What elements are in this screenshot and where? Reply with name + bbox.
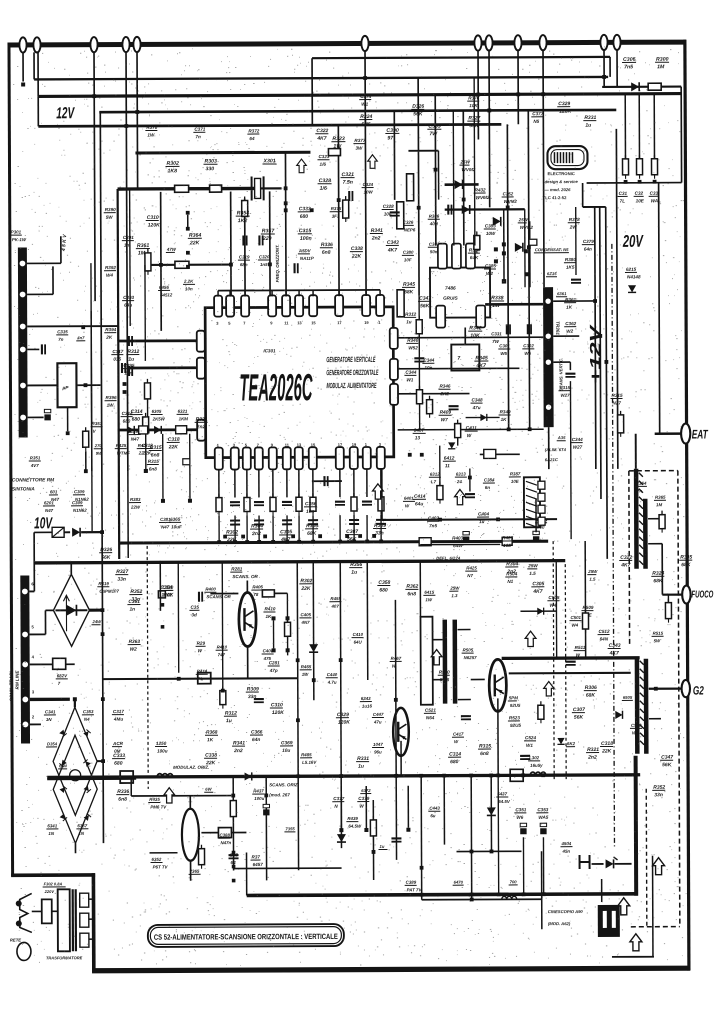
connector J301 body (left bar) — [18, 247, 28, 437]
svg-text:6n8: 6n8 — [322, 250, 331, 256]
svg-text:C302: C302 — [523, 343, 534, 348]
resistor R436 — [230, 797, 236, 821]
svg-text:33n: 33n — [117, 577, 126, 583]
svg-text:L7: L7 — [431, 479, 437, 484]
svg-text:C389: C389 — [406, 880, 417, 885]
junction — [528, 427, 532, 431]
wire riser x509 — [507, 124, 508, 429]
svg-text:R406: R406 — [252, 584, 263, 589]
svg-text:10W: 10W — [486, 231, 496, 236]
label R357 — [261, 228, 276, 242]
wire x505 verticals — [503, 209, 505, 281]
label R315 — [149, 445, 162, 459]
signal arrow — [618, 898, 630, 915]
pin of U301 (right) — [390, 384, 398, 405]
svg-text:R515: R515 — [653, 631, 664, 636]
junction — [296, 718, 300, 722]
svg-text:ELECTRONIC: ELECTRONIC — [548, 171, 575, 176]
wire y455 with white rect — [480, 453, 520, 455]
driver block U303 — [451, 344, 479, 370]
svg-text:R485: R485 — [301, 752, 312, 757]
svg-text:C377: C377 — [532, 111, 543, 116]
label C318 — [167, 437, 180, 451]
diode D315b — [462, 205, 470, 214]
transformer T301 secondary bar upper2 — [643, 499, 648, 569]
diode D313 — [309, 644, 318, 652]
svg-text:C344: C344 — [572, 437, 583, 442]
wire horizontal rail y111 — [99, 110, 616, 112]
svg-text:W6: W6 — [524, 351, 531, 356]
junction dots on y776 bus — [296, 774, 300, 778]
label 6215 — [625, 267, 641, 280]
junction y520 — [496, 517, 500, 521]
junction — [541, 92, 545, 96]
wire comp to rail — [380, 515, 382, 540]
wire x556 drop — [555, 561, 557, 658]
vertical resistor R429 — [397, 290, 404, 317]
svg-text:TRASFORMATORE: TRASFORMATORE — [46, 955, 83, 960]
svg-text:64U: 64U — [354, 640, 363, 645]
svg-text:R29: R29 — [197, 641, 206, 646]
capacitor C425b — [448, 205, 451, 215]
svg-text:100u: 100u — [254, 796, 264, 801]
svg-text:R365: R365 — [655, 495, 666, 500]
svg-text:1K: 1K — [501, 417, 508, 422]
svg-text:R40: R40 — [138, 443, 147, 448]
svg-text:4Mu: 4Mu — [113, 717, 123, 722]
label R361 — [136, 243, 150, 257]
svg-text:1047: 1047 — [373, 742, 383, 747]
svg-text:700: 700 — [510, 879, 518, 884]
wire riser x36 — [33, 52, 35, 79]
wire riser x530 — [528, 110, 529, 429]
junction — [604, 360, 608, 364]
wire riser x396 — [393, 111, 395, 200]
svg-text:6343: 6343 — [361, 696, 371, 701]
transformer T301 secondary bar upper — [634, 469, 639, 569]
label R323 — [331, 136, 345, 150]
svg-text:5W: 5W — [106, 215, 114, 220]
svg-text:47W: 47W — [166, 247, 177, 252]
svg-text:120K: 120K — [338, 720, 350, 726]
wire from U301 bottom pin — [380, 469, 382, 497]
svg-text:C281: C281 — [269, 660, 280, 665]
wire T301 pin3 — [553, 361, 570, 363]
label C314 — [130, 409, 143, 423]
wire y429 to U301 pin left3 — [118, 428, 198, 431]
pin 8 of U301 (bottom) — [309, 447, 317, 469]
svg-text:4K7: 4K7 — [387, 247, 397, 253]
label C318 — [600, 741, 613, 755]
white rect on y429 b — [176, 426, 187, 434]
diode D320 — [448, 442, 455, 448]
svg-text:6456: 6456 — [159, 285, 169, 290]
equal tick — [308, 520, 318, 524]
wire feeder x656 — [653, 94, 655, 159]
svg-text:W5: W5 — [500, 351, 507, 356]
resistor R310 — [220, 687, 226, 709]
svg-text:R349: R349 — [500, 409, 511, 414]
svg-text:TLC 41-2-52: TLC 41-2-52 — [543, 195, 567, 200]
ind loops y852 — [502, 896, 517, 899]
wire bridge output — [89, 609, 102, 612]
capacitor C308 — [282, 502, 292, 505]
svg-text:2n2: 2n2 — [371, 236, 381, 242]
svg-text:1W: 1W — [147, 132, 155, 137]
svg-text:SCANS. OR: SCANS. OR — [206, 594, 231, 599]
junction — [92, 94, 96, 98]
wire from U301 bottom pin — [258, 469, 260, 497]
junction G2 lead — [654, 687, 658, 691]
svg-text:C380: C380 — [403, 250, 414, 255]
wire y184 to EAT column — [587, 182, 682, 184]
svg-text:25W: 25W — [459, 160, 470, 165]
svg-text:CS 52-ALIMENTATORE-SCANSIONE O: CS 52-ALIMENTATORE-SCANSIONE ORIZZONTALE… — [154, 932, 338, 942]
resistor R303 — [216, 494, 222, 516]
resistor R323 — [437, 482, 443, 504]
wire horizontal rail y58 — [312, 57, 610, 58]
svg-text:C35: C35 — [190, 605, 199, 610]
svg-text:C31: C31 — [619, 191, 628, 196]
svg-text:4504: 4504 — [560, 841, 571, 846]
wire x222 vertical — [221, 563, 224, 691]
wire x443 — [443, 776, 445, 845]
resistor R301 — [648, 83, 661, 90]
transformer T301 primary bar — [543, 287, 554, 427]
signal arrow — [368, 155, 378, 169]
svg-text:C317: C317 — [113, 709, 124, 714]
white box left of rail — [218, 828, 231, 838]
svg-text:R432: R432 — [475, 187, 486, 192]
svg-text:C383: C383 — [485, 223, 496, 228]
label C329 — [557, 101, 571, 115]
T302 winding bar B — [452, 620, 457, 704]
svg-text:4K7: 4K7 — [532, 589, 542, 595]
svg-text:10u: 10u — [282, 748, 290, 754]
label C338 — [350, 246, 363, 260]
wire x273 seg — [272, 620, 274, 648]
svg-text:1K2: 1K2 — [238, 218, 248, 224]
svg-text:(MOD. A62): (MOD. A62) — [548, 921, 571, 926]
resistor R311 — [175, 185, 189, 192]
capacitor C452 — [520, 823, 526, 834]
svg-text:24W: 24W — [91, 619, 102, 624]
svg-text:1u: 1u — [379, 844, 384, 849]
label C326 — [402, 220, 416, 233]
wire y660 — [103, 677, 298, 680]
svg-text:ACR: ACR — [112, 741, 124, 746]
label R302 — [165, 161, 179, 175]
wire x584 riser — [582, 183, 584, 207]
resistor R324 — [455, 420, 461, 442]
connector pin P3 on top bus — [90, 37, 97, 52]
junction — [101, 697, 105, 701]
wire x470 bottom — [470, 776, 473, 900]
svg-text:W27: W27 — [561, 393, 571, 398]
title box inner — [150, 927, 341, 945]
connector pin P5 on top bus — [133, 37, 140, 52]
svg-text:R377: R377 — [354, 138, 365, 143]
junction — [337, 198, 341, 202]
svg-text:W: W — [198, 648, 203, 653]
frame right border — [683, 40, 690, 971]
wire from U301 bottom pin — [312, 469, 314, 497]
label X301 — [262, 158, 276, 164]
svg-text:R351: R351 — [30, 455, 41, 460]
resistor R303 — [636, 155, 642, 179]
svg-text:22K: 22K — [601, 749, 612, 755]
svg-text:CONDENSAT. N5: CONDENSAT. N5 — [535, 247, 569, 252]
frame bottom-left notch vertical — [92, 873, 96, 972]
capacitor C314L — [129, 336, 132, 346]
svg-text:6312: 6312 — [430, 472, 440, 477]
svg-text:R511: R511 — [575, 645, 586, 650]
column right of IC x420 — [418, 296, 421, 430]
wire x265 — [265, 776, 267, 880]
capacitor C355 — [324, 476, 327, 486]
svg-text:747: 747 — [218, 652, 226, 657]
svg-text:C324: C324 — [363, 182, 374, 187]
svg-text:6n8: 6n8 — [407, 591, 416, 597]
capacitor C319 — [129, 366, 132, 376]
junction — [73, 697, 77, 701]
junction — [653, 180, 657, 184]
label D326 — [411, 104, 424, 118]
label R324 — [651, 571, 664, 585]
wire x146 low — [145, 433, 147, 471]
label C358 — [377, 580, 390, 594]
svg-text:GENERATORE VERTICALE: GENERATORE VERTICALE — [326, 355, 376, 364]
wire x470 seg — [469, 469, 471, 492]
wire FUOCO lead — [662, 593, 682, 595]
svg-text:1KM: 1KM — [179, 416, 189, 421]
svg-text:56K: 56K — [574, 715, 584, 721]
svg-text:C447: C447 — [373, 712, 384, 717]
transformer T303 primary — [58, 889, 70, 951]
capacitor C318 — [571, 280, 581, 283]
capacitor C317 — [122, 363, 125, 373]
svg-text:680: 680 — [379, 587, 388, 593]
capacitor C317 — [449, 406, 459, 409]
horizontal rail y852 — [150, 852, 178, 854]
pin 7 of U301 (top) — [376, 295, 384, 316]
svg-text:R37: R37 — [252, 854, 261, 859]
svg-text:1.5: 1.5 — [589, 577, 596, 582]
wire pin stub — [338, 290, 340, 296]
svg-text:W4: W4 — [572, 623, 579, 628]
resistor R305 — [270, 493, 276, 515]
T303 secondary — [80, 893, 89, 947]
svg-text:EAT: EAT — [692, 427, 709, 441]
dashed vertical x147 — [147, 546, 148, 789]
pin 1 of J301 — [20, 261, 26, 267]
label C310 — [146, 215, 160, 229]
svg-text:6470: 6470 — [454, 880, 464, 885]
svg-text:10n: 10n — [185, 286, 193, 291]
svg-text:1N: 1N — [46, 717, 52, 722]
svg-text:25W: 25W — [527, 563, 538, 568]
vertical resistor R427 — [397, 202, 404, 229]
manufacturer logo MIVAR — [547, 146, 587, 169]
svg-text:10V: 10V — [34, 515, 53, 532]
wire x86 down — [85, 451, 87, 471]
label C390 — [385, 128, 399, 142]
wire long vertical x102 — [100, 112, 103, 843]
wire x577 — [575, 207, 577, 275]
svg-text:92U5: 92U5 — [510, 703, 521, 708]
capacitor C306 — [230, 502, 240, 505]
pin of U302 top — [466, 243, 475, 268]
pin 14 of U301 (top) — [241, 295, 249, 316]
svg-text:47u: 47u — [373, 720, 382, 725]
black sq pair — [494, 247, 498, 251]
wire comp to rail — [272, 515, 274, 540]
wire from U301 bottom pin — [234, 470, 236, 498]
wire plug to fuse — [32, 910, 42, 912]
signal arrow — [525, 631, 536, 646]
wire vertical feeder x491 — [488, 50, 491, 207]
black marks under C317 — [123, 382, 127, 386]
svg-text:C328: C328 — [383, 204, 394, 209]
svg-text:7n: 7n — [58, 337, 63, 342]
svg-text:45n: 45n — [561, 849, 570, 854]
junction — [124, 124, 128, 128]
label C329 — [336, 712, 350, 726]
svg-text:R523: R523 — [509, 715, 520, 720]
svg-text:7: 7 — [457, 356, 460, 362]
wire from U301 bottom pin — [272, 469, 274, 497]
svg-text:C505: C505 — [548, 595, 559, 600]
frame bottom-left notch horizontal — [11, 873, 95, 877]
svg-text:RETE: RETE — [10, 937, 21, 942]
wire riser x612 — [609, 57, 611, 77]
resistor R319 — [416, 316, 422, 338]
svg-text:C348: C348 — [472, 397, 483, 402]
capacitor C302 — [349, 191, 352, 201]
crystal X301 — [252, 176, 264, 200]
capacitor C453 — [540, 823, 546, 834]
T302 winding bar A — [442, 620, 447, 704]
svg-text:68K: 68K — [681, 562, 691, 568]
svg-text:NEP6: NEP6 — [404, 227, 416, 232]
svg-text:SINTONIA: SINTONIA — [12, 486, 35, 492]
wire pin stub — [379, 290, 381, 296]
junction — [264, 794, 268, 798]
svg-text:R414: R414 — [197, 669, 208, 674]
wire x540 drop — [541, 851, 543, 929]
label R303 — [203, 159, 217, 173]
svg-text:47u: 47u — [472, 405, 481, 410]
label C321 — [341, 172, 355, 186]
wire bridge right out — [97, 760, 103, 762]
wire riser x465 — [462, 111, 465, 246]
svg-text:10K: 10K — [470, 333, 481, 339]
svg-text:1W: 1W — [302, 672, 309, 677]
svg-text:C309: C309 — [74, 489, 85, 494]
svg-text:64u: 64u — [124, 303, 132, 308]
diode D312 in bridge — [84, 814, 91, 821]
svg-text:C440: C440 — [327, 672, 338, 677]
white sq x161 — [158, 591, 165, 598]
wire riser x62 — [60, 236, 62, 263]
svg-text:TEA2026C: TEA2026C — [239, 367, 312, 409]
wire riser x340 — [337, 125, 340, 296]
label R315 — [478, 743, 491, 757]
svg-text:4K7: 4K7 — [280, 537, 290, 543]
label R306 — [305, 523, 318, 537]
thick vertical x634 lower — [634, 756, 639, 896]
svg-text:7n5: 7n5 — [624, 64, 633, 70]
black dots near Q301 — [271, 616, 275, 620]
resistor R313 — [210, 185, 222, 192]
svg-text:1M: 1M — [657, 64, 665, 70]
junction x178 — [177, 677, 181, 681]
svg-text:C315: C315 — [57, 329, 68, 334]
more top cluster parts — [317, 154, 329, 167]
resistor R322 — [659, 511, 665, 533]
svg-text:G2: G2 — [693, 684, 704, 698]
svg-text:64: 64 — [249, 136, 255, 141]
junction — [417, 206, 421, 210]
svg-text:3W: 3W — [355, 146, 363, 151]
svg-text:R370: R370 — [146, 125, 157, 130]
resistor R306 — [618, 411, 624, 437]
svg-text:6201: 6201 — [44, 500, 54, 505]
svg-text:68K: 68K — [361, 122, 371, 128]
wire T301 pin2 — [553, 335, 579, 337]
svg-text:2n2: 2n2 — [233, 748, 243, 754]
diode D314 — [615, 711, 622, 719]
pin of CN2 — [538, 493, 545, 501]
resistor R320 — [416, 386, 422, 408]
pin 8 of U301 (top) — [362, 295, 370, 316]
svg-text:1N: 1N — [78, 831, 84, 836]
svg-text:C331: C331 — [491, 331, 502, 336]
svg-text:W2: W2 — [486, 271, 493, 276]
resistor R311 — [198, 845, 204, 869]
wire Q303 emitter — [497, 698, 499, 775]
svg-text:4K7: 4K7 — [316, 136, 326, 142]
signal arrow — [630, 934, 642, 951]
wire EAT lead — [655, 432, 681, 435]
diode D306 in bridge — [83, 730, 90, 737]
signal arrow — [431, 650, 442, 665]
label R336 — [320, 242, 333, 256]
svg-text:2n2: 2n2 — [251, 531, 261, 537]
wire J301 pin5 to regulator — [27, 384, 57, 386]
svg-text:C521: C521 — [425, 708, 436, 713]
capacitor C322 — [390, 212, 400, 215]
svg-text:7486: 7486 — [445, 286, 456, 292]
junction — [101, 632, 105, 636]
svg-text:W1: W1 — [361, 102, 368, 107]
diode D310 in bridge — [83, 759, 90, 766]
svg-text:R383: R383 — [130, 497, 141, 502]
junction bridge out — [101, 608, 105, 612]
signal arrow — [455, 489, 466, 504]
svg-text:A35: A35 — [557, 435, 566, 440]
svg-text:601: 601 — [50, 489, 58, 494]
svg-text:C377: C377 — [333, 796, 344, 801]
label C338 — [204, 753, 217, 767]
svg-text:10n: 10n — [424, 365, 432, 370]
wire U302 to U303 — [464, 328, 466, 345]
wire jog y208 — [583, 206, 606, 208]
transistor Q302 — [393, 708, 409, 756]
wire x476 vertical — [473, 77, 476, 245]
wire vertical x340 — [339, 562, 342, 776]
svg-text:1u: 1u — [585, 123, 591, 129]
